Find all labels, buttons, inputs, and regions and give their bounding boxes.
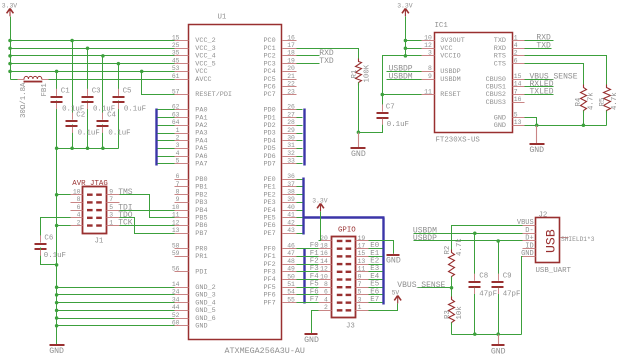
svg-text:18: 18 [287, 50, 295, 57]
U1 pin 31 PD5 (right stub+number+name) [263, 142, 296, 153]
junction 3.3V rail row 2 [8, 54, 12, 58]
svg-text:29: 29 [287, 127, 295, 134]
svg-text:31: 31 [287, 142, 295, 149]
svg-text:54: 54 [287, 289, 295, 296]
bus GPIO horizontal bar to J3 side [304, 216, 385, 218]
svg-text:PB7: PB7 [195, 230, 207, 238]
J1 row 1 contact dashes [87, 194, 102, 196]
svg-text:C9: C9 [503, 273, 512, 281]
svg-text:TXLED: TXLED [530, 88, 554, 97]
junction IC1 GND rail / R4 [582, 124, 586, 128]
svg-text:GND: GND [491, 347, 506, 356]
wire net VBUS_SENSE (label wire) [418, 287, 452, 289]
IC1 pin 9 USBDM (left stub+number+name) [422, 73, 461, 84]
svg-text:C3: C3 [92, 88, 101, 96]
svg-text:19: 19 [358, 235, 366, 242]
U1 pin 48 PF2 (right stub+number+name) [263, 258, 296, 269]
junction 3.3V rail row 4 [8, 70, 12, 74]
svg-text:C2: C2 [76, 112, 85, 120]
wire C3 column (VCC_3 row to C3 and down to GND rail) [87, 49, 89, 96]
J3 pin 13 (right stub+number) [356, 258, 369, 265]
U1 pin 30 PD4 (right stub+number+name) [263, 135, 296, 146]
svg-text:3: 3 [428, 50, 432, 57]
wire E0 (GPIO bus to J3) [369, 248, 383, 250]
wire R3 top lead [451, 288, 453, 300]
wire C7 bottom to R1/GND node [359, 120, 383, 133]
U1 pin 36 PE0 (right stub+number+name) [263, 173, 296, 184]
wire PD1 to GPIO bus [297, 117, 303, 119]
wire F6 (U1 PF6 to J3) [297, 294, 319, 296]
wire bottom GND rail (R3 to J2 GND) [452, 334, 522, 336]
capacitor C4 [97, 112, 131, 138]
U1 pin 39 PE3 (right stub+number+name) [263, 196, 296, 207]
wire F4 (U1 PF4 to J3) [297, 279, 319, 281]
capacitor C3 [82, 88, 116, 114]
svg-text:15: 15 [358, 250, 366, 257]
U1 pin 44 GND_5 (left stub+number+name) [172, 304, 216, 315]
wire C5 column (VCC_5 row to C5 and down to GND rail) [118, 64, 120, 96]
USB connector J2 body [536, 218, 560, 263]
svg-text:0.1uF: 0.1uF [387, 121, 409, 129]
capacitor C6 [35, 235, 66, 261]
svg-text:2: 2 [77, 219, 81, 226]
IC1 pin 10 3V3OUT (left stub+number+name) [422, 34, 465, 45]
wire IC1 3V3OUT row [406, 40, 422, 42]
wire PE4 to GPIO bus [297, 210, 303, 212]
J1 row 4 contact dashes [87, 217, 102, 219]
IC1 pin 1 TXD (right stub+number+name) [494, 34, 525, 45]
svg-text:50: 50 [287, 273, 295, 280]
svg-text:GND: GND [386, 256, 401, 265]
wire PD2 to GPIO bus [297, 125, 303, 127]
ground GND J3 pin2 [304, 333, 319, 345]
wire 3.3V to J3 pin 20 [319, 212, 321, 241]
J3 row 5 contact dashes [337, 271, 351, 273]
svg-text:R2: R2 [444, 246, 452, 255]
junction GND rail / C8 [473, 332, 477, 336]
svg-text:3.3V: 3.3V [2, 3, 18, 10]
U1 pin 62 PA0 (left stub+number+name) [172, 104, 208, 115]
svg-text:36: 36 [287, 173, 295, 180]
svg-text:8: 8 [176, 189, 180, 196]
J3 pin 20 (left stub+number) [319, 235, 332, 242]
U1 pin 14 GND_2 (left stub+number+name) [172, 281, 216, 292]
svg-text:27: 27 [287, 111, 295, 118]
svg-text:5: 5 [109, 204, 113, 211]
svg-text:1: 1 [109, 219, 113, 226]
svg-text:7: 7 [109, 196, 113, 203]
wire U1 GND pin row 1 to GND column [57, 294, 175, 296]
svg-text:8: 8 [77, 196, 81, 203]
svg-text:16: 16 [320, 250, 328, 257]
U1 pin 26 PD0 (right stub+number+name) [263, 104, 296, 115]
svg-text:USBDM: USBDM [440, 76, 460, 84]
svg-text:55: 55 [287, 296, 295, 303]
wire C7 top lead [382, 95, 384, 112]
svg-text:1: 1 [514, 34, 518, 41]
IC1 pin 7 CBUS2 (right stub+number+name) [486, 88, 525, 99]
svg-text:7: 7 [176, 181, 180, 188]
svg-text:C7: C7 [386, 103, 395, 111]
junction RESET / C7 branch [381, 93, 385, 97]
junction VCC_2 row / C2 column [70, 39, 74, 43]
wire VCC row 4 (3.3V to U1 pin) [11, 71, 175, 73]
U1 pin 6 PB0 (left stub+number+name) [175, 173, 208, 184]
svg-text:49: 49 [287, 266, 295, 273]
IC1 pin 15 CBUS0 (right stub+number+name) [486, 73, 525, 84]
svg-text:14: 14 [172, 281, 180, 288]
svg-text:PF7: PF7 [263, 299, 275, 307]
wire J2 GND pin drop [522, 257, 523, 335]
wire main GND column (rail down to GND symbol) [56, 149, 58, 345]
svg-text:R3: R3 [444, 310, 452, 319]
wire decoupling GND rail under capacitors [57, 148, 119, 150]
wire net USBDP (label to J2 D+) [414, 240, 523, 242]
J3 pin 11 (right stub+number) [356, 266, 369, 273]
wire net TXLED stub (IC1 CBUS2) [525, 94, 554, 96]
svg-text:51: 51 [287, 281, 295, 288]
wire PA6 to GPIO bus [158, 156, 175, 158]
U1 pin 1 PA3 (left stub+number+name) [175, 127, 208, 138]
svg-text:RESET: RESET [440, 91, 460, 99]
svg-text:11: 11 [424, 88, 432, 95]
wire J3 pin 19 to GND [369, 241, 394, 254]
svg-text:4: 4 [176, 150, 180, 157]
svg-text:1: 1 [176, 127, 180, 134]
capacitor C2 [66, 112, 100, 138]
svg-text:R5: R5 [599, 98, 607, 107]
wire R2 bottom to VBUS_SENSE node [451, 277, 453, 288]
svg-text:GND: GND [494, 122, 506, 130]
svg-text:19: 19 [287, 57, 295, 64]
J1 row 3 contact dashes [87, 209, 102, 211]
U1 pin 40 PE4 (right stub+number+name) [263, 204, 296, 215]
U1 pin 22 PC6 (right stub+number+name) [263, 81, 296, 92]
svg-text:9: 9 [428, 73, 432, 80]
wire PA7 to GPIO bus [158, 163, 175, 165]
IC1 pin 4 RXD (right stub+number+name) [494, 42, 525, 53]
svg-text:GND: GND [529, 146, 544, 155]
U1 pin 64 PA2 (left stub+number+name) [172, 119, 208, 130]
wire net TMS (J1 pin 9 to U1 PB5) [120, 195, 175, 218]
svg-text:61: 61 [172, 73, 180, 80]
power arrow 5V [392, 290, 402, 304]
wire E1 (GPIO bus to J3) [369, 256, 383, 258]
wire 3.3V rail vertical (left) [10, 17, 12, 80]
svg-text:8: 8 [428, 65, 432, 72]
svg-text:10: 10 [73, 189, 81, 196]
junction GND column row 3 [55, 309, 59, 313]
wire C9 bottom to GND rail [498, 288, 500, 335]
U1 pin 5 PA7 (left stub+number+name) [175, 158, 208, 169]
capacitor C7 [377, 103, 409, 129]
junction D- / C8 [473, 232, 477, 236]
svg-text:47: 47 [287, 250, 295, 257]
U1 pin 10 PB4 (left stub+number+name) [172, 204, 208, 215]
svg-text:5: 5 [358, 289, 362, 296]
svg-text:17: 17 [287, 42, 295, 49]
junction 3.3V rail row 0 [8, 39, 12, 43]
wire J1 pin 2 to GND column [57, 225, 71, 227]
U1 pin 3 PA5 (left stub+number+name) [175, 142, 208, 153]
svg-text:TMS: TMS [118, 188, 133, 197]
svg-text:C1: C1 [61, 88, 70, 96]
J2 shield pin SHIELD1*3 (right stub+name) [561, 236, 595, 243]
wire PD7 to GPIO bus [297, 163, 303, 165]
wire net RXD stub (U1 PC2) [297, 55, 320, 57]
wire E3 (GPIO bus to J3) [369, 271, 383, 273]
svg-text:4: 4 [514, 42, 518, 49]
IC1 pin 16 CBUS3 (right stub+number+name) [486, 96, 525, 107]
svg-text:4.7k: 4.7k [588, 92, 596, 110]
U1 pin 28 PD2 (right stub+number+name) [263, 119, 296, 130]
wire F0 (U1 PF0 to J3) [297, 248, 319, 250]
svg-text:5V: 5V [392, 290, 400, 297]
wire net TXD stub (U1 PC3) [297, 63, 320, 65]
J1 row 2 contact dashes [87, 201, 102, 203]
junction GND column / J1 pin 2 [55, 224, 59, 228]
U1 pin 25 VCC_3 (left stub+number+name) [172, 42, 216, 53]
J3 pin 15 (right stub+number) [356, 250, 369, 257]
svg-text:1: 1 [358, 304, 362, 311]
bus GPIO segment PA (left of U1) [155, 109, 157, 166]
svg-text:0.1uF: 0.1uF [108, 129, 130, 137]
U1 pin 35 VCC_4 (left stub+number+name) [172, 50, 216, 61]
capacitor C5 [113, 88, 147, 114]
wire E5 (GPIO bus to J3) [369, 287, 383, 289]
wire net USBDM (label to J2 D-) [414, 233, 523, 235]
IC1 pin 5 GND (right stub+number+name) [494, 111, 525, 122]
U1 pin 4 PA6 (left stub+number+name) [175, 150, 208, 161]
junction GND column row 2 [55, 301, 59, 305]
svg-text:14: 14 [514, 81, 522, 88]
U1 pin 29 PD3 (right stub+number+name) [263, 127, 296, 138]
U1 pin 50 PF4 (right stub+number+name) [263, 273, 296, 284]
J3 pin 17 (right stub+number) [356, 242, 369, 249]
svg-text:40: 40 [287, 204, 295, 211]
wire PA1 to GPIO bus [158, 117, 175, 119]
resistor R1 100K [356, 59, 362, 86]
svg-text:4.7k: 4.7k [611, 92, 619, 110]
U1 pin 11 PB5 (left stub+number+name) [172, 212, 208, 223]
IC1 pin 12 VCC (left stub+number+name) [422, 42, 453, 53]
J3 pin 8 (left stub+number) [319, 281, 332, 288]
svg-text:22: 22 [287, 81, 295, 88]
svg-text:10: 10 [320, 273, 328, 280]
header J3 GPIO body [332, 237, 356, 318]
wire net TXD (IC1 RXD pin) [525, 48, 552, 50]
svg-text:USBDM: USBDM [389, 72, 413, 81]
svg-text:AVCC: AVCC [195, 76, 211, 84]
svg-text:R4: R4 [575, 97, 583, 106]
J3 row 10 contact dashes [337, 309, 351, 311]
svg-text:GND: GND [304, 336, 319, 345]
J1 pin 2 (left stub+number) [71, 219, 83, 226]
svg-text:9: 9 [358, 273, 362, 280]
svg-text:VBUS_SENSE: VBUS_SENSE [397, 281, 445, 290]
J1 pin 5 (right stub+number) [107, 204, 120, 211]
svg-text:20: 20 [320, 235, 328, 242]
svg-text:38: 38 [287, 189, 295, 196]
USB-UART bridge IC1 FT230XS-US body [435, 33, 513, 133]
junction VCC_3 row / C3 column [86, 46, 90, 50]
U1 pin 53 VCC (left stub+number+name) [172, 65, 208, 76]
wire U1 PC1 to R1 top [297, 49, 359, 62]
ferrite bead FB1 [18, 76, 50, 118]
svg-text:PD7: PD7 [263, 161, 275, 169]
svg-text:SHIELD1*3: SHIELD1*3 [561, 236, 595, 243]
wire E6 (GPIO bus to J3) [369, 294, 383, 296]
svg-text:4.7k: 4.7k [456, 238, 464, 256]
svg-text:56: 56 [172, 266, 180, 273]
svg-text:9: 9 [176, 196, 180, 203]
U1 pin 43 PE7 (right stub+number+name) [263, 227, 296, 238]
ground GND USB [491, 335, 506, 357]
svg-text:39: 39 [287, 196, 295, 203]
wire VCC row 2 (3.3V to U1 pin) [11, 55, 175, 57]
J1 pin 8 (left stub+number) [71, 196, 83, 203]
svg-text:ATXMEGA256A3U-AU: ATXMEGA256A3U-AU [225, 346, 305, 356]
junction GND column row 0 [55, 285, 59, 289]
svg-text:46: 46 [287, 242, 295, 249]
wire U1 GND pin row 2 to GND column [57, 302, 175, 304]
svg-text:USBDP: USBDP [413, 234, 437, 243]
U1 pin 15 VCC_2 (left stub+number+name) [172, 34, 216, 45]
U1 pin 51 PF5 (right stub+number+name) [263, 281, 296, 292]
svg-text:VCCIO: VCCIO [440, 53, 460, 61]
svg-text:11: 11 [358, 266, 366, 273]
U1 pin 52 GND_6 (left stub+number+name) [172, 312, 216, 323]
svg-text:C6: C6 [44, 235, 53, 243]
U1 pin 8 PB2 (left stub+number+name) [175, 189, 208, 200]
J3 pin 2 (left stub+number) [319, 304, 332, 311]
wire C2 column (VCC_2 row to C2 and down to GND rail) [72, 41, 74, 120]
svg-text:16: 16 [514, 96, 522, 103]
J3 row 1 contact dashes [337, 240, 351, 242]
J3 row 6 contact dashes [337, 278, 351, 280]
J2 pin VBUS (left stub+name) [517, 219, 536, 227]
U1 pin 12 PB6 (left stub+number+name) [172, 219, 208, 230]
J3 pin 7 (right stub+number) [356, 281, 369, 288]
junction GND rail x=72.1 [70, 146, 74, 150]
J1 pin 3 (right stub+number) [107, 212, 120, 219]
svg-text:GPIO: GPIO [338, 227, 356, 235]
svg-text:C5: C5 [123, 88, 132, 96]
junction 3.3V rail row 1 [8, 46, 12, 50]
J2 pin GND (left stub+name) [521, 250, 535, 258]
wire F2 (U1 PF2 to J3) [297, 264, 319, 266]
wire R1 bottom to GND [358, 83, 360, 133]
J3 pin 6 (left stub+number) [319, 289, 332, 296]
svg-text:25: 25 [172, 42, 180, 49]
resistor R2 4.7k [449, 250, 455, 280]
power arrow 3.3V left [2, 3, 18, 17]
svg-text:26: 26 [287, 104, 295, 111]
junction GND rail / C9 [496, 332, 500, 336]
svg-text:6: 6 [176, 173, 180, 180]
svg-text:C8: C8 [479, 273, 488, 281]
wire J1 pin 10 to GND column [57, 194, 71, 196]
wire IC1 VCC row [406, 48, 422, 50]
capacitor C8 [469, 273, 498, 299]
svg-text:0.1uF: 0.1uF [124, 106, 146, 114]
wire E4 (GPIO bus to J3) [369, 279, 383, 281]
J3 row 2 contact dashes [337, 247, 351, 249]
junction VCC row / C1 column [55, 70, 59, 74]
U1 pin 17 PC1 (right stub+number+name) [263, 42, 296, 53]
svg-text:USB_UART: USB_UART [536, 267, 572, 275]
wire net CTS (IC1 to R4 top) [525, 64, 584, 88]
U1 pin 27 PD1 (right stub+number+name) [263, 111, 296, 122]
IC1 pin 3 VCCIO (left stub+number+name) [422, 50, 461, 61]
svg-text:R1: R1 [351, 69, 359, 78]
J2 pin D- (left stub+name) [523, 227, 536, 235]
svg-text:7: 7 [514, 88, 518, 95]
J1 pin 9 (right stub+number) [107, 189, 120, 196]
U1 pin 57 RESET/PDI (left stub+number+name) [172, 88, 232, 99]
svg-text:10: 10 [172, 204, 180, 211]
svg-text:U1: U1 [218, 14, 227, 22]
resistor R4 4.7k [581, 85, 587, 113]
J3 row 9 contact dashes [337, 301, 351, 303]
U1 pin 56 PDI (left stub+number+name) [172, 266, 208, 277]
svg-text:47pF: 47pF [503, 290, 521, 298]
U1 pin 20 PC4 (right stub+number+name) [263, 65, 296, 76]
wire 3.3V rail to IC1 VCC pins [405, 17, 407, 56]
svg-text:6: 6 [324, 289, 328, 296]
svg-text:20: 20 [287, 65, 295, 72]
wire C8 bottom to GND rail [474, 288, 476, 335]
wire AVCC feed through FB1 (3.3V rail corner to FB1) [11, 79, 18, 81]
IC1 pin 8 USBDP (left stub+number+name) [422, 65, 461, 76]
wire PA3 to GPIO bus [158, 133, 175, 135]
svg-text:3: 3 [109, 212, 113, 219]
wire net RXD (IC1 TXD pin) [525, 40, 554, 42]
wire PE5 to GPIO bus [297, 217, 303, 219]
J3 row 3 contact dashes [337, 255, 351, 257]
wire J3 pin 2 to GND [312, 311, 319, 334]
IC1 pin 13 GND (right stub+number+name) [494, 119, 525, 130]
svg-text:AVR_JTAG: AVR_JTAG [72, 180, 107, 188]
wire net TDI (J1 pin 5 to U1 PB4) [120, 210, 175, 212]
wire PD4 to GPIO bus [297, 140, 303, 142]
wire VCC row 0 (3.3V to U1 pin) [11, 40, 175, 42]
wire PE7 to GPIO bus [297, 233, 303, 235]
IC1 pin 14 CBUS1 (right stub+number+name) [486, 81, 525, 92]
J1 pin 6 (left stub+number) [71, 204, 83, 211]
svg-text:TCK: TCK [118, 219, 133, 228]
U1 pin 2 PA4 (left stub+number+name) [175, 135, 208, 146]
wire PD6 to GPIO bus [297, 156, 303, 158]
ground GND R1/C7 [351, 133, 366, 160]
wire net RXLED stub (IC1 CBUS1) [525, 86, 554, 88]
wire E7 (GPIO bus to J3) [369, 302, 383, 304]
svg-text:8: 8 [324, 281, 328, 288]
wire U1 GND pin row 5 to GND column [57, 325, 175, 327]
bus GPIO segment PD (right of U1) [303, 109, 305, 166]
wire IC1 GND rail (pin 13 to R5) [525, 125, 607, 127]
junction GND rail x=56.6 [55, 146, 59, 150]
svg-text:13: 13 [358, 258, 366, 265]
capacitor C9 [492, 273, 521, 299]
wire PE6 to GPIO bus [297, 225, 303, 227]
wire C1 column (VCC row to C1 and down to GND rail) [56, 72, 58, 96]
ground GND IC1 [529, 126, 544, 156]
wire net RTS (IC1 to R5 top) [525, 56, 607, 88]
wire F1 (U1 PF1 to J3) [297, 256, 319, 258]
wire PA0 to GPIO bus [158, 109, 175, 111]
J3 row 8 contact dashes [337, 294, 351, 296]
